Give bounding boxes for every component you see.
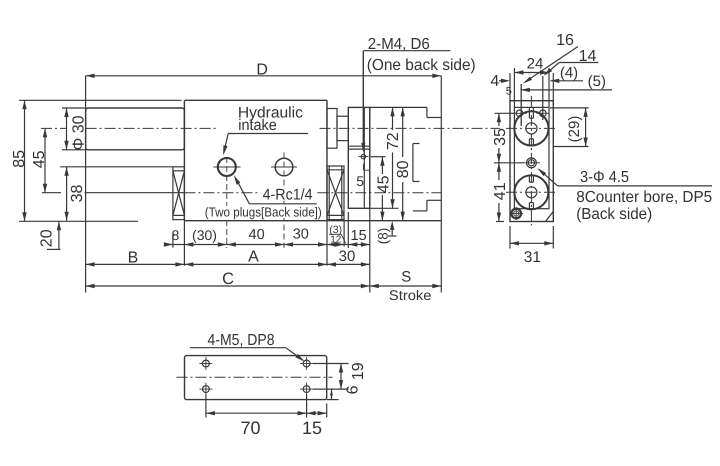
svg-text:(8): (8) <box>376 228 391 245</box>
svg-text:45: 45 <box>375 175 392 193</box>
svg-text:19: 19 <box>350 362 367 380</box>
svg-text:80: 80 <box>395 160 412 178</box>
svg-text:S: S <box>401 269 411 286</box>
svg-text:C: C <box>222 270 234 288</box>
svg-text:4: 4 <box>490 73 499 90</box>
svg-text:8: 8 <box>172 227 180 243</box>
svg-text:41: 41 <box>492 182 509 200</box>
svg-text:D: D <box>256 62 268 79</box>
svg-text:(4): (4) <box>560 64 578 81</box>
svg-text:4-Rc1/4: 4-Rc1/4 <box>263 187 313 204</box>
svg-text:30: 30 <box>293 226 309 242</box>
svg-text:8Counter bore, DP5: 8Counter bore, DP5 <box>576 189 712 206</box>
svg-text:5: 5 <box>356 173 364 189</box>
svg-text:31: 31 <box>524 249 541 266</box>
svg-text:(5): (5) <box>588 73 606 90</box>
svg-text:(29): (29) <box>566 116 583 143</box>
svg-text:35: 35 <box>492 128 509 146</box>
svg-text:72: 72 <box>385 132 402 150</box>
svg-text:(One back side): (One back side) <box>367 57 476 74</box>
svg-text:3-Φ 4.5: 3-Φ 4.5 <box>580 169 629 186</box>
svg-text:15: 15 <box>351 228 367 244</box>
svg-text:4-M5, DP8: 4-M5, DP8 <box>208 332 275 349</box>
svg-text:Φ 30: Φ 30 <box>71 115 88 150</box>
svg-text:45: 45 <box>31 150 48 168</box>
svg-text:B: B <box>128 249 139 266</box>
svg-text:Stroke: Stroke <box>389 287 432 303</box>
svg-text:38: 38 <box>69 185 86 203</box>
svg-text:12: 12 <box>330 234 342 245</box>
svg-text:20: 20 <box>39 229 56 247</box>
svg-text:24: 24 <box>527 56 544 73</box>
svg-text:5: 5 <box>506 85 512 97</box>
svg-text:(30): (30) <box>192 227 217 243</box>
svg-text:70: 70 <box>240 418 260 438</box>
svg-text:(Back side): (Back side) <box>576 206 652 223</box>
svg-text:intake: intake <box>238 117 276 134</box>
svg-text:15: 15 <box>302 418 322 438</box>
svg-text:30: 30 <box>339 248 356 265</box>
svg-text:(Two plugs[Back side]): (Two plugs[Back side]) <box>205 205 322 220</box>
svg-text:A: A <box>248 249 259 266</box>
svg-text:85: 85 <box>11 150 28 168</box>
svg-text:6: 6 <box>345 385 362 394</box>
svg-text:16: 16 <box>556 32 574 49</box>
svg-text:40: 40 <box>249 227 265 243</box>
